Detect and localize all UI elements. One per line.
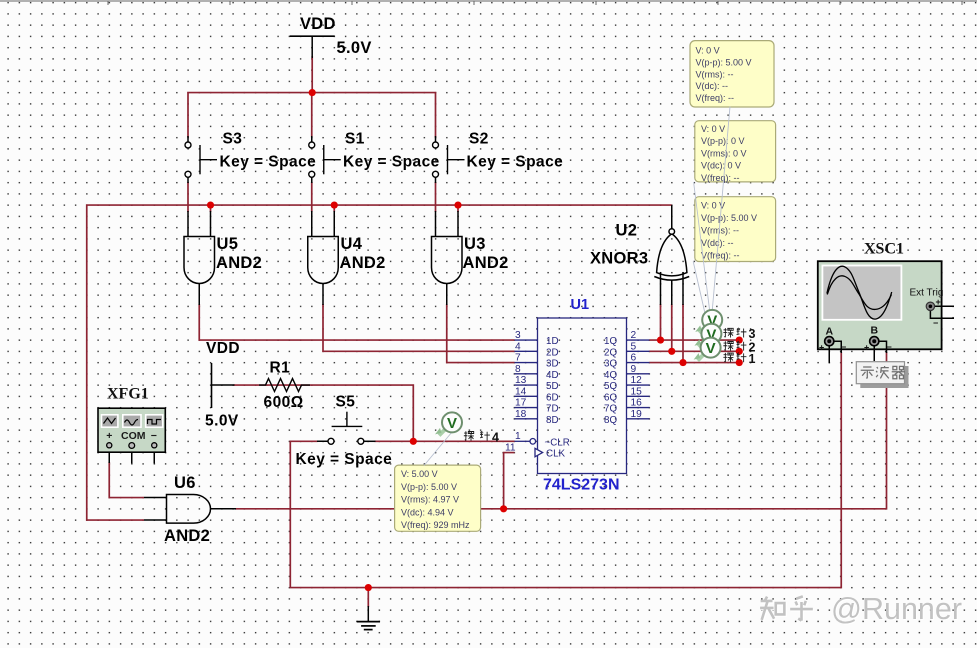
svg-text:V(p-p): 0 V: V(p-p): 0 V [701, 136, 745, 146]
svg-text:~CLR: ~CLR [545, 437, 570, 448]
svg-text:CLK: CLK [546, 449, 566, 460]
svg-text:3D: 3D [546, 359, 559, 370]
svg-text:V(freq): 929 mHz: V(freq): 929 mHz [401, 520, 470, 530]
svg-text:XFG1: XFG1 [107, 386, 149, 403]
svg-text:R1: R1 [270, 360, 291, 377]
svg-text:2D: 2D [546, 347, 559, 358]
svg-text:V: V [447, 415, 457, 432]
svg-text:600Ω: 600Ω [264, 394, 304, 411]
svg-text:AND2: AND2 [463, 254, 509, 272]
svg-text:19: 19 [631, 409, 643, 420]
svg-text:V: V [706, 340, 716, 357]
svg-text:V(freq): --: V(freq): -- [701, 173, 740, 183]
svg-text:U3: U3 [464, 235, 486, 253]
svg-text:VDD: VDD [300, 15, 336, 33]
svg-text:AND2: AND2 [164, 527, 210, 545]
svg-text:17: 17 [515, 398, 527, 409]
svg-text:3Q: 3Q [604, 359, 617, 370]
svg-text:XNOR3: XNOR3 [590, 250, 648, 268]
svg-text:Key = Space: Key = Space [296, 451, 393, 468]
svg-text:U6: U6 [174, 474, 196, 492]
svg-text:XSC1: XSC1 [864, 241, 904, 258]
svg-text:V: 0 V: V: 0 V [701, 124, 725, 134]
svg-text:V: 5.00 V: V: 5.00 V [401, 469, 438, 479]
svg-text:AND2: AND2 [216, 254, 262, 272]
svg-text:V(p-p): 5.00 V: V(p-p): 5.00 V [401, 482, 457, 492]
svg-text:A: A [826, 326, 834, 338]
svg-text:V(rms): 0 V: V(rms): 0 V [701, 148, 747, 158]
svg-text:V(rms): --: V(rms): -- [696, 69, 734, 79]
svg-text:Key = Space: Key = Space [467, 154, 564, 171]
svg-text:7D: 7D [546, 404, 559, 415]
svg-text:6D: 6D [546, 392, 559, 403]
svg-text:9: 9 [631, 364, 637, 375]
svg-text:Key = Space: Key = Space [343, 154, 440, 171]
svg-text:V(dc): 4.94 V: V(dc): 4.94 V [401, 507, 454, 517]
svg-text:V: 0 V: V: 0 V [696, 46, 720, 56]
svg-text:3: 3 [515, 330, 521, 341]
svg-text:V(p-p): 5.00 V: V(p-p): 5.00 V [696, 57, 752, 67]
svg-text:5D: 5D [546, 381, 559, 392]
svg-text:1: 1 [749, 352, 756, 366]
svg-text:V(dc): 0 V: V(dc): 0 V [701, 161, 741, 171]
svg-text:7: 7 [515, 353, 521, 364]
svg-text:S5: S5 [336, 394, 356, 411]
svg-text:4: 4 [492, 430, 499, 444]
svg-text:1D: 1D [546, 336, 559, 347]
svg-text:+: + [819, 343, 824, 353]
svg-text:6: 6 [631, 353, 637, 364]
svg-text:V(dc): --: V(dc): -- [701, 238, 734, 248]
svg-text:1: 1 [515, 431, 521, 442]
svg-text:15: 15 [631, 386, 643, 397]
svg-text:B: B [871, 325, 879, 337]
svg-text:V(freq): --: V(freq): -- [701, 251, 740, 261]
svg-text:11: 11 [505, 443, 516, 454]
svg-text:18: 18 [515, 409, 527, 420]
svg-text:U1: U1 [571, 297, 590, 313]
svg-text:−: − [841, 342, 846, 352]
svg-text:S3: S3 [223, 131, 243, 148]
svg-text:8Q: 8Q [604, 415, 617, 426]
svg-text:AND2: AND2 [340, 254, 386, 272]
svg-text:V(p-p): 5.00 V: V(p-p): 5.00 V [701, 213, 757, 223]
svg-text:4Q: 4Q [604, 370, 617, 381]
svg-text:S2: S2 [469, 131, 489, 148]
svg-text:+: + [864, 343, 869, 353]
svg-text:VDD: VDD [206, 340, 240, 357]
svg-text:V(rms): 4.97 V: V(rms): 4.97 V [401, 495, 459, 505]
svg-text:4: 4 [515, 341, 521, 352]
svg-text:5Q: 5Q [604, 381, 617, 392]
svg-text:2: 2 [631, 330, 637, 341]
svg-text:+: + [106, 430, 112, 442]
svg-text:V(dc): --: V(dc): -- [696, 81, 729, 91]
svg-text:2Q: 2Q [604, 347, 617, 358]
svg-text:S1: S1 [345, 131, 365, 148]
svg-text:16: 16 [631, 398, 643, 409]
svg-text:−: − [151, 430, 157, 442]
svg-text:13: 13 [515, 375, 527, 386]
svg-text:5.0V: 5.0V [337, 39, 372, 57]
svg-text:U2: U2 [616, 222, 638, 240]
svg-text:74LS273N: 74LS273N [543, 477, 620, 494]
svg-text:12: 12 [631, 375, 643, 386]
svg-text:−: − [933, 318, 938, 328]
svg-text:8D: 8D [546, 415, 559, 426]
svg-text:U5: U5 [217, 235, 239, 253]
svg-text:5.0V: 5.0V [205, 413, 239, 430]
svg-text:+: + [936, 297, 941, 307]
svg-text:Key = Space: Key = Space [220, 154, 317, 171]
svg-text:1Q: 1Q [604, 336, 617, 347]
svg-text:U4: U4 [341, 235, 363, 253]
svg-text:@Runner: @Runner [831, 592, 962, 626]
svg-text:COM: COM [121, 430, 146, 442]
svg-text:4D: 4D [546, 370, 559, 381]
svg-text:6Q: 6Q [604, 392, 617, 403]
svg-text:V(freq): --: V(freq): -- [696, 93, 735, 103]
svg-text:3: 3 [749, 327, 756, 341]
svg-text:8: 8 [515, 364, 521, 375]
svg-text:V(rms): --: V(rms): -- [701, 226, 739, 236]
svg-text:14: 14 [515, 386, 527, 397]
svg-text:7Q: 7Q [604, 404, 617, 415]
svg-text:5: 5 [631, 341, 637, 352]
svg-text:−: − [887, 342, 892, 352]
